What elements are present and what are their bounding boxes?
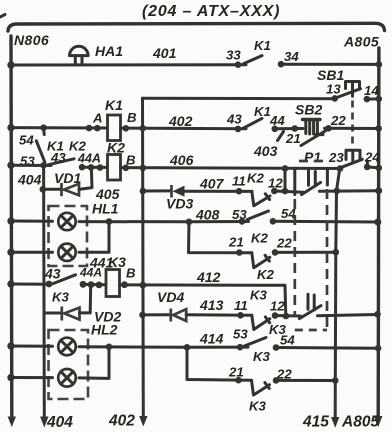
svg-text:415: 415: [302, 414, 329, 431]
svg-text:412: 412: [196, 269, 221, 285]
svg-text:SB2: SB2: [295, 102, 322, 118]
svg-text:HA1: HA1: [95, 43, 123, 59]
svg-text:A805: A805: [343, 34, 379, 50]
svg-text:413: 413: [199, 297, 224, 313]
svg-text:402: 402: [168, 113, 193, 129]
svg-text:K2: K2: [251, 231, 269, 246]
svg-text:408: 408: [195, 207, 220, 223]
svg-text:406: 406: [169, 152, 194, 168]
svg-text:12: 12: [270, 299, 285, 314]
svg-text:44A: 44A: [77, 152, 101, 166]
svg-text:A: A: [92, 111, 103, 126]
svg-text:404: 404: [46, 414, 73, 431]
svg-text:K1: K1: [254, 38, 271, 53]
svg-text:404: 404: [17, 172, 42, 188]
svg-text:23: 23: [328, 150, 344, 165]
svg-text:54: 54: [19, 133, 34, 148]
svg-text:402: 402: [108, 413, 135, 430]
svg-text:43: 43: [226, 112, 242, 127]
svg-text:(204 – ATX–XXX): (204 – ATX–XXX): [142, 3, 280, 20]
svg-text:21: 21: [285, 131, 301, 146]
svg-text:VD1: VD1: [54, 170, 81, 186]
svg-text:407: 407: [199, 176, 225, 192]
svg-text:K2: K2: [257, 267, 275, 282]
svg-text:414: 414: [199, 331, 224, 347]
svg-text:43: 43: [44, 266, 61, 282]
svg-text:A805: A805: [341, 414, 379, 431]
svg-text:HL2: HL2: [91, 322, 118, 338]
svg-text:403: 403: [253, 143, 278, 159]
svg-text:K3: K3: [250, 288, 268, 303]
svg-text:11: 11: [234, 298, 248, 313]
svg-text:13: 13: [326, 82, 341, 97]
svg-text:HL1: HL1: [92, 201, 119, 217]
svg-text:B: B: [127, 110, 137, 125]
svg-text:53: 53: [233, 327, 248, 342]
svg-text:K2: K2: [107, 140, 125, 156]
svg-text:22: 22: [276, 236, 292, 251]
svg-text:K1: K1: [254, 104, 271, 119]
svg-text:21: 21: [228, 365, 244, 380]
svg-text:43: 43: [50, 150, 66, 165]
svg-text:14: 14: [364, 83, 379, 98]
svg-text:VD3: VD3: [166, 196, 193, 212]
svg-text:B: B: [126, 266, 136, 281]
svg-text:VD4: VD4: [157, 289, 184, 305]
svg-text:33: 33: [226, 48, 241, 63]
svg-text:34: 34: [284, 49, 299, 64]
svg-text:K3: K3: [253, 349, 271, 364]
svg-text:21: 21: [228, 235, 244, 250]
svg-text:401: 401: [152, 45, 177, 61]
svg-text:P1: P1: [304, 149, 321, 165]
svg-text:22: 22: [330, 113, 346, 128]
svg-text:K1: K1: [105, 97, 123, 113]
svg-text:K3: K3: [269, 322, 287, 337]
svg-text:44: 44: [269, 113, 285, 128]
svg-text:N806: N806: [14, 32, 49, 48]
svg-text:K3: K3: [52, 290, 70, 305]
svg-text:11: 11: [232, 174, 246, 189]
svg-text:K3: K3: [249, 399, 267, 414]
svg-text:24: 24: [364, 150, 380, 165]
svg-text:K2: K2: [247, 171, 265, 186]
svg-text:K3: K3: [108, 254, 126, 270]
